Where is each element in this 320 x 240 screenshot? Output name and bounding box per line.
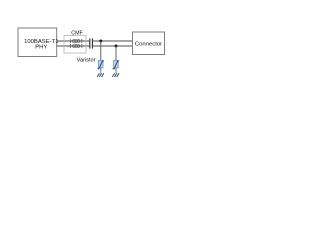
wire bottom segment C2 to connector [93, 45, 133, 47]
svg-text:PHY: PHY [35, 45, 47, 51]
svg-text:CMF: CMF [71, 30, 83, 36]
connector J1 [133, 32, 165, 55]
varistor RV1 [97, 60, 104, 68]
winding L1 top of CMF [71, 39, 82, 43]
node B junction dot on bottom line [115, 45, 118, 48]
wire vertical node B to varistor RV2 [115, 46, 117, 61]
varistor RV2 [113, 60, 120, 68]
node A junction dot on top line [99, 40, 102, 43]
capacitor C2 bottom line [90, 43, 93, 48]
wire vertical node A to varistor RV1 [100, 41, 102, 61]
common mode filter FL1 box [64, 36, 86, 54]
ground chassis under RV1 [97, 68, 104, 77]
capacitor C1 top line [90, 38, 93, 43]
wire top segment C1 to connector [93, 40, 133, 42]
svg-text:Varistor: Varistor [77, 58, 96, 64]
ground chassis under RV2 [112, 68, 119, 77]
IC U1 100BASE-T1 PHY [18, 28, 58, 57]
svg-text:Connector: Connector [135, 42, 162, 48]
wire bottom segment PHY to C2 [57, 45, 90, 47]
wire top segment PHY to C1 [57, 40, 90, 42]
winding L2 bottom of CMF [71, 44, 82, 48]
